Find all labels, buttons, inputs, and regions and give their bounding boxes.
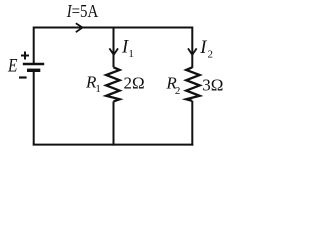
svg-text:E: E	[7, 56, 18, 77]
svg-text:1: 1	[128, 48, 134, 60]
svg-text:I=5A: I=5A	[66, 1, 99, 21]
svg-text:I: I	[199, 38, 207, 58]
svg-text:3Ω: 3Ω	[202, 75, 223, 94]
svg-text:2: 2	[208, 49, 214, 61]
svg-text:1: 1	[95, 83, 101, 95]
svg-text:2Ω: 2Ω	[124, 74, 145, 93]
svg-text:2: 2	[175, 85, 181, 97]
